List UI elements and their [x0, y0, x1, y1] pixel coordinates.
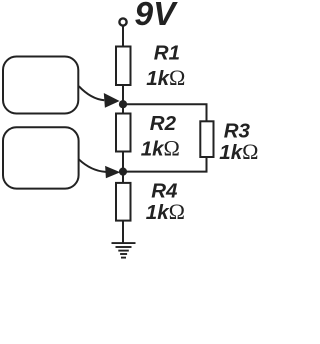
9V supply terminal circle: [119, 18, 126, 25]
arrow 2: callout box 2 to node 2: [79, 159, 106, 172]
svg-text:1kΩ: 1kΩ: [146, 199, 185, 224]
junction node 2: [119, 168, 127, 176]
wire: terminal to R1 top: [122, 26, 124, 47]
wire: R2 bottom to node 2: [122, 152, 124, 172]
wire: node 2 to R4 top: [122, 172, 124, 183]
svg-text:1kΩ: 1kΩ: [141, 136, 180, 161]
callout box 1: [3, 57, 78, 114]
svg-text:R1: R1: [154, 42, 180, 65]
callout box 2: [3, 127, 79, 188]
svg-text:9V: 9V: [135, 0, 179, 33]
wire: node 1 to R3 branch (top horizontal): [123, 104, 207, 121]
svg-text:1kΩ: 1kΩ: [146, 65, 185, 90]
wire: R3 bottom to node 2 (bottom horizontal): [123, 157, 207, 172]
wire: R4 bottom to ground: [122, 221, 124, 243]
svg-text:1kΩ: 1kΩ: [219, 139, 258, 164]
resistor R3 body: [200, 121, 213, 157]
junction node 1: [119, 100, 127, 108]
ground symbol: [112, 243, 136, 258]
resistor R1 body: [116, 47, 131, 86]
wire: node 1 to R2 top: [122, 104, 124, 114]
resistor R4 body: [116, 183, 131, 221]
svg-text:R2: R2: [150, 112, 177, 135]
arrow 1: callout box 1 to node 1: [79, 86, 105, 100]
resistor R2 body: [116, 114, 131, 152]
wire: R1 bottom to node 1: [122, 85, 124, 104]
